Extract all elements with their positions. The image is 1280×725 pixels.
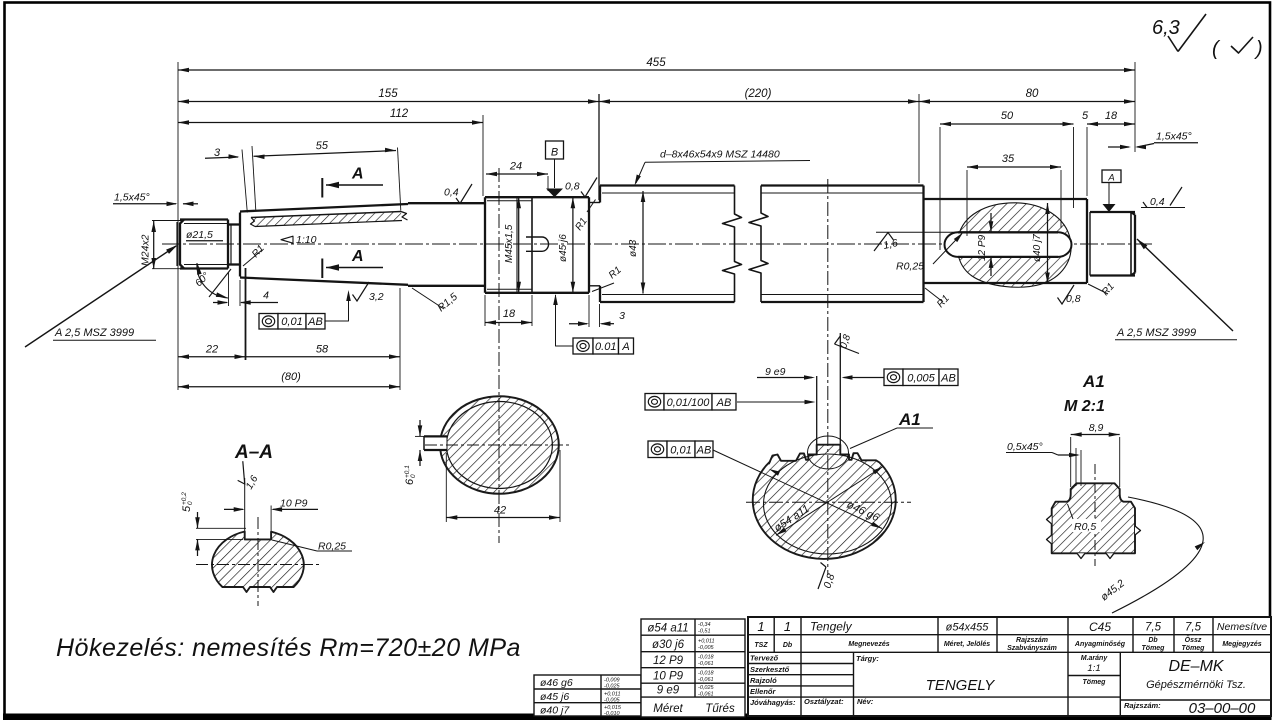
dia30 section — [1090, 211, 1135, 213]
svg-text:AB: AB — [696, 445, 712, 457]
shaft centerline — [162, 243, 1152, 245]
svg-text:0: 0 — [410, 474, 417, 478]
svg-text:C45: C45 — [1089, 620, 1111, 634]
dia45 end face — [588, 197, 590, 293]
roughness 0,8 A1 bottom — [818, 567, 826, 589]
svg-text:-0,025: -0,025 — [698, 685, 715, 691]
svg-text:B: B — [551, 147, 558, 159]
svg-text:Szerkesztő: Szerkesztő — [750, 665, 790, 674]
section arrow A bottom — [321, 259, 323, 279]
svg-text:18: 18 — [1105, 110, 1118, 122]
svg-text:9 e9: 9 e9 — [657, 685, 680, 697]
svg-text:112: 112 — [390, 108, 409, 120]
dim 35 — [967, 166, 1061, 168]
svg-text:Tűrés: Tűrés — [705, 703, 735, 715]
svg-text:0,4: 0,4 — [1150, 196, 1165, 208]
svg-text:1:10: 1:10 — [296, 234, 317, 246]
svg-text:Tömeg: Tömeg — [1182, 645, 1206, 652]
svg-text:Méret, Jelölés: Méret, Jelölés — [944, 641, 990, 648]
svg-text:0,005: 0,005 — [907, 373, 935, 385]
taper symbol 1:10 — [281, 236, 293, 243]
svg-text:Db: Db — [1148, 637, 1158, 644]
svg-text:10 P9: 10 P9 — [280, 498, 308, 510]
svg-text:0,4: 0,4 — [444, 187, 459, 199]
svg-text:0: 0 — [187, 501, 194, 505]
fit table small — [534, 675, 641, 716]
tolerance frame 0,01 AB — [648, 441, 667, 458]
svg-text:A: A — [621, 341, 629, 353]
svg-text:Gépészmérnöki Tsz.: Gépészmérnöki Tsz. — [1146, 679, 1246, 691]
svg-text:35: 35 — [1002, 153, 1015, 165]
dim 5 +0,2 depth — [196, 527, 246, 529]
dim M45x1,5 — [518, 197, 520, 293]
svg-text:R0,25: R0,25 — [318, 541, 346, 553]
center hole symbol — [526, 237, 549, 251]
svg-text:-0,010: -0,010 — [604, 711, 621, 717]
svg-text:24: 24 — [509, 161, 522, 173]
A1 section outline — [753, 445, 896, 559]
svg-text:A 2,5 MSZ 3999: A 2,5 MSZ 3999 — [54, 327, 134, 339]
label A1 with leader — [850, 428, 897, 449]
svg-text:ø54x455: ø54x455 — [946, 622, 990, 634]
svg-text:A: A — [1107, 173, 1114, 184]
A1 diameter line dia54 — [776, 467, 883, 536]
svg-text:M24x2: M24x2 — [140, 234, 152, 266]
svg-text:-0,018: -0,018 — [698, 655, 715, 661]
svg-text:-0,025: -0,025 — [604, 684, 621, 690]
dim 58 — [246, 356, 401, 358]
arc dia45,2 — [1112, 497, 1203, 613]
A1 detail break jags — [1047, 515, 1052, 524]
roughness 3,2 on cone — [353, 282, 370, 301]
cone keyway bottom line — [251, 212, 401, 218]
svg-text:M.arány: M.arány — [1081, 655, 1109, 662]
title block main — [748, 617, 1271, 716]
svg-text:ø40 j7: ø40 j7 — [1032, 234, 1043, 262]
svg-text:0,5x45°: 0,5x45° — [1007, 441, 1043, 453]
svg-text:Tengely: Tengely — [810, 620, 853, 634]
dim 80 — [919, 101, 1135, 103]
svg-text:12 P9: 12 P9 — [653, 655, 684, 667]
svg-text:-0,005: -0,005 — [698, 645, 715, 651]
A1 detail centerline — [1094, 464, 1096, 566]
svg-text:ø45 j6: ø45 j6 — [558, 234, 569, 262]
dim 6 +0,1 — [419, 420, 421, 436]
svg-text:R0,5: R0,5 — [1074, 521, 1096, 533]
dim 24 — [486, 173, 548, 175]
svg-text:Anyagminőség: Anyagminőség — [1074, 641, 1126, 648]
right end chamfer — [1130, 212, 1132, 276]
svg-text:1: 1 — [757, 619, 764, 634]
svg-text:ø46 g6: ø46 g6 — [540, 677, 573, 689]
svg-text:Tömeg: Tömeg — [1142, 645, 1166, 652]
svg-text:ø54 a11: ø54 a11 — [647, 623, 688, 635]
svg-text:7,5: 7,5 — [1185, 622, 1202, 634]
svg-text:Osztályzat:: Osztályzat: — [804, 697, 844, 706]
dim 42 — [446, 517, 560, 519]
svg-text:-0,061: -0,061 — [698, 677, 714, 683]
label R0,5 — [1072, 519, 1101, 532]
svg-text:155: 155 — [378, 88, 398, 100]
svg-text:1:1: 1:1 — [1087, 663, 1100, 674]
dim 3 groove — [569, 323, 587, 325]
svg-text:A: A — [351, 166, 364, 183]
A-A keyway wall extensions — [244, 478, 246, 531]
svg-text:(80): (80) — [281, 371, 301, 383]
spline section left segment — [600, 184, 735, 186]
label R0,25 A-A — [272, 540, 317, 551]
dim 22 — [178, 356, 246, 358]
dim 10 P9 — [224, 508, 243, 510]
svg-text:ø30 j6: ø30 j6 — [652, 639, 685, 651]
tolerance table — [641, 619, 745, 717]
cone section circle outer — [440, 396, 559, 494]
svg-text:-0,005: -0,005 — [604, 697, 621, 703]
svg-text:Ellenőr: Ellenőr — [750, 687, 777, 696]
dim dia45 j6 — [572, 197, 574, 293]
M45 section outline — [485, 196, 589, 198]
svg-text:42: 42 — [494, 505, 506, 517]
cone broken-out section boundary — [251, 218, 256, 227]
dim M24x2 — [153, 221, 155, 269]
dia38 cylinder — [408, 202, 485, 204]
svg-text:12 P9: 12 P9 — [977, 234, 988, 261]
svg-text:6: 6 — [404, 478, 416, 485]
A1 detail circle — [808, 436, 849, 469]
svg-text:1,5x45°: 1,5x45° — [1156, 131, 1192, 143]
svg-text:0,01: 0,01 — [281, 316, 302, 328]
svg-text:Rajzszám: Rajzszám — [1016, 637, 1048, 644]
svg-text:Össz: Össz — [1185, 635, 1202, 644]
svg-text:ø43: ø43 — [628, 239, 639, 257]
svg-text:55: 55 — [315, 140, 329, 153]
slot 9e9 projection lines — [816, 376, 818, 446]
dim 18 right — [1087, 123, 1135, 125]
roughness 0,4 right end — [1141, 207, 1185, 209]
dim 155 — [178, 101, 599, 103]
tolerance frame 0,01/100 AB — [645, 394, 664, 411]
A1 horizontal centerline — [746, 501, 911, 503]
cone bottom edge — [240, 278, 408, 285]
datum B — [546, 141, 564, 159]
dia43 relief groove — [589, 202, 600, 204]
svg-text:AB: AB — [716, 397, 732, 409]
cone section keyway slot — [424, 437, 447, 450]
tolerance frame 0,01 AB lower left — [259, 314, 278, 330]
thread end line — [531, 197, 533, 293]
svg-text:): ) — [1254, 38, 1263, 60]
svg-text:M45x1,5: M45x1,5 — [504, 224, 515, 263]
roughness 0,8 dia40 — [1058, 285, 1075, 304]
svg-text:A 2,5 MSZ 3999: A 2,5 MSZ 3999 — [1116, 327, 1196, 339]
svg-text:Megnevezés: Megnevezés — [848, 641, 889, 648]
dim (220) — [599, 101, 919, 103]
svg-text:Tömeg: Tömeg — [1083, 679, 1107, 686]
svg-text:Név:: Név: — [857, 697, 874, 706]
tolerance frame 0,005 AB — [884, 369, 903, 386]
svg-text:8,9: 8,9 — [1089, 422, 1104, 434]
svg-text:ø40 j7: ø40 j7 — [540, 705, 570, 717]
svg-text:Hökezelés: nemesítés Rm=720±: Hökezelés: nemesítés Rm=720±20 MPa — [56, 634, 521, 662]
roughness 1,6 A-A — [231, 461, 253, 486]
svg-text:R0,25: R0,25 — [896, 261, 924, 273]
M24x2 threaded end — [180, 220, 184, 269]
svg-text:ø45 j6: ø45 j6 — [540, 691, 569, 703]
cone start face — [239, 213, 241, 277]
svg-text:(220): (220) — [745, 88, 772, 100]
dim (80) — [178, 386, 400, 388]
cone section circle inner — [446, 402, 552, 489]
circle centerlines — [425, 444, 570, 446]
svg-text:Nemesítve: Nemesítve — [1217, 621, 1267, 633]
svg-text:0.01: 0.01 — [595, 341, 616, 353]
dim 50 — [940, 123, 1074, 125]
svg-text:7,5: 7,5 — [1145, 622, 1162, 634]
break line right — [749, 186, 768, 303]
thread runout line — [516, 197, 518, 293]
svg-text:03–00–00: 03–00–00 — [1189, 700, 1256, 717]
svg-text:TSZ: TSZ — [754, 642, 768, 649]
svg-text:M 2:1: M 2:1 — [1064, 398, 1105, 415]
svg-text:Rajzoló: Rajzoló — [750, 676, 777, 685]
section arrow A top — [321, 178, 323, 198]
svg-text:50: 50 — [1001, 110, 1014, 122]
tolerance frame 0.01 A — [573, 338, 593, 354]
svg-text:80: 80 — [1026, 88, 1039, 100]
svg-text:Méret: Méret — [653, 703, 683, 715]
keyway slot 12P9 — [958, 232, 1058, 257]
spline end face — [922, 186, 924, 303]
A1 diameter line dia46 — [713, 450, 882, 529]
svg-text:455: 455 — [646, 57, 666, 69]
svg-text:18: 18 — [503, 308, 516, 320]
svg-text:Szabványszám: Szabványszám — [1007, 645, 1057, 652]
A1 detail tooth outline — [1052, 483, 1135, 553]
dia40 section — [924, 198, 1088, 200]
svg-text:1,5x45°: 1,5x45° — [114, 192, 150, 204]
cone top edge — [240, 204, 408, 212]
svg-text:6,3: 6,3 — [1152, 17, 1180, 39]
A-A centerlines — [196, 564, 320, 566]
svg-text:A1: A1 — [898, 410, 921, 429]
svg-text:ø21,5: ø21,5 — [186, 229, 213, 241]
svg-text:DE–MK: DE–MK — [1168, 658, 1224, 675]
svg-text:-0,34: -0,34 — [698, 622, 711, 628]
svg-text:-0,51: -0,51 — [698, 629, 711, 635]
svg-text:5: 5 — [181, 505, 193, 512]
svg-text:0,8: 0,8 — [565, 181, 580, 193]
dim 18 thread length — [485, 322, 532, 324]
extension lines left — [177, 62, 179, 390]
svg-text:-0,061: -0,061 — [698, 661, 714, 667]
svg-text:22: 22 — [205, 344, 218, 356]
dim 112 — [178, 122, 483, 124]
roughness 1,6 spline — [876, 231, 958, 233]
dim 455 — [178, 69, 1135, 71]
chamfer 60deg indicator — [197, 263, 228, 298]
step face to dia30 — [1086, 199, 1088, 283]
svg-text:Db: Db — [783, 642, 793, 649]
svg-text:1: 1 — [784, 619, 791, 634]
svg-text:AB: AB — [307, 316, 323, 328]
svg-text:AB: AB — [940, 373, 956, 385]
svg-text:Megjegyzés: Megjegyzés — [1222, 641, 1261, 648]
svg-text:+0,011: +0,011 — [698, 638, 715, 644]
section centerline x=828 — [827, 179, 829, 575]
svg-text:5: 5 — [1082, 110, 1089, 122]
svg-text:4: 4 — [263, 290, 269, 302]
dim 5 — [1060, 123, 1071, 125]
dim 55 — [254, 151, 397, 157]
svg-text:Tárgy:: Tárgy: — [856, 654, 879, 663]
svg-text:3,2: 3,2 — [369, 291, 384, 303]
datum A — [1102, 170, 1121, 183]
svg-text:10 P9: 10 P9 — [653, 671, 684, 683]
svg-text:0,8: 0,8 — [1066, 293, 1081, 305]
svg-text:0,01: 0,01 — [670, 445, 691, 457]
svg-text:Jóváhagyás:: Jóváhagyás: — [750, 698, 796, 707]
svg-text:TENGELY: TENGELY — [926, 677, 996, 694]
dim dia43 — [642, 191, 644, 294]
roughness 0,8 slot side — [835, 336, 841, 344]
svg-text:A–A: A–A — [234, 442, 273, 463]
A1 root circle dia46 — [764, 454, 892, 554]
spline section right segment — [761, 184, 924, 186]
svg-text:d–8x46x54x9 MSZ 14480: d–8x46x54x9 MSZ 14480 — [660, 149, 780, 161]
A-A section outline — [212, 532, 304, 593]
step face to M45 — [484, 197, 486, 293]
svg-text:58: 58 — [316, 344, 329, 356]
svg-text:-0,018: -0,018 — [698, 670, 715, 676]
dim 12 P9 — [990, 213, 992, 232]
svg-text:A: A — [351, 248, 364, 265]
svg-text:A1: A1 — [1082, 372, 1105, 391]
dim dia40 j7 — [1047, 203, 1049, 284]
section centerline x=499 — [498, 168, 500, 543]
break line left — [723, 186, 742, 303]
svg-text:9 e9: 9 e9 — [765, 366, 786, 378]
svg-text:3: 3 — [619, 310, 625, 322]
dia40 broken-out section over keyway — [957, 203, 1071, 287]
thread undercut neck — [228, 223, 240, 225]
svg-text:Tervező: Tervező — [750, 654, 778, 663]
cone keyway hatch — [252, 212, 402, 227]
svg-text:0,01/100: 0,01/100 — [667, 397, 711, 409]
svg-text:Rajzszám:: Rajzszám: — [1124, 701, 1161, 710]
svg-text:-0,061: -0,061 — [698, 692, 714, 698]
